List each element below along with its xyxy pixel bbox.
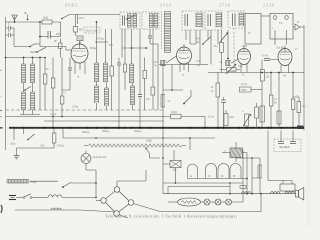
wire h183 — [163, 182, 243, 184]
resistor R15 — [291, 73, 295, 128]
svg-text:½W: ½W — [40, 144, 45, 148]
tube V1 leads — [75, 62, 85, 79]
IF can T1 — [120, 12, 140, 29]
resistor R7 — [110, 29, 113, 110]
resistor R21 — [17, 128, 56, 148]
label 0.1uF — [50, 113, 57, 116]
switch S10 — [23, 194, 32, 199]
label 580uu — [90, 47, 98, 50]
switch S11 — [62, 182, 97, 188]
wire vertical x140 — [138, 29, 142, 128]
resistor R12 grid — [220, 59, 239, 66]
capacitor C6 — [117, 58, 121, 128]
svg-text:20kΩ: 20kΩ — [171, 111, 177, 114]
resistor R2 — [59, 39, 63, 58]
barretter box B — [243, 14, 262, 48]
svg-text:30μ: 30μ — [214, 46, 219, 48]
coil L10 — [131, 83, 135, 110]
svg-text:18a 12+1μ²: 18a 12+1μ² — [85, 30, 98, 33]
wire right rail x304 — [303, 25, 305, 131]
rail y116 — [6, 116, 171, 118]
wire battery — [16, 197, 23, 199]
label box 10a 12+13u — [84, 27, 100, 33]
resistor R3 grid leak — [73, 15, 84, 37]
jack J1 — [188, 164, 248, 180]
relay box 22a — [163, 161, 181, 184]
label half watt — [40, 144, 64, 148]
switch S7 — [196, 37, 212, 45]
resistor R10 — [151, 29, 155, 110]
svg-text:20kΩ: 20kΩ — [146, 139, 152, 143]
capacitor C4 — [54, 34, 61, 43]
wire converter left — [95, 197, 101, 201]
svg-text:2420: 2420 — [160, 3, 172, 8]
resistor R1 1k — [42, 16, 52, 25]
paper crease right — [306, 0, 311, 226]
wire dropper — [29, 180, 58, 182]
wire bottom return — [15, 194, 261, 218]
resistor R19 — [224, 110, 234, 126]
speaker LS — [296, 188, 304, 201]
wire vertical x40 — [39, 58, 41, 111]
choke L15 — [271, 192, 280, 194]
wire h89 right — [251, 89, 262, 91]
svg-text:2338: 2338 — [263, 3, 275, 8]
wire x14 drop — [10, 128, 16, 146]
tube V2 — [177, 44, 192, 64]
wire relay top link — [261, 15, 270, 17]
wire meter leads — [86, 151, 96, 198]
ground G1 — [14, 148, 20, 159]
wire vertical x163 low — [162, 128, 164, 194]
svg-text:nʸ: nʸ — [77, 76, 79, 79]
svg-text:2586: 2586 — [241, 89, 247, 92]
wire x228 — [227, 30, 229, 59]
can label box — [240, 83, 252, 92]
page number 2728 — [219, 3, 231, 8]
tube V1 — [71, 41, 88, 63]
svg-text:8CB1: 8CB1 — [65, 3, 78, 8]
svg-text:nʸ: nʸ — [182, 74, 184, 77]
capacitor C7 — [262, 55, 278, 70]
svg-text:θʸ: θʸ — [209, 175, 211, 178]
wire h64 — [159, 64, 208, 66]
diode N — [293, 20, 304, 30]
resistor R18 20k — [171, 111, 206, 128]
svg-text:R³: R³ — [233, 175, 236, 178]
tube V3 leads — [241, 64, 247, 77]
wire vertical x279 — [278, 73, 280, 128]
svg-text:100a: 100a — [10, 143, 16, 146]
resistor R9 — [143, 58, 146, 111]
wire can leads — [186, 30, 218, 44]
wire grid link V1 — [40, 47, 71, 51]
label 3870 — [95, 37, 148, 49]
switch S8 — [183, 90, 191, 104]
pot P3 — [242, 110, 251, 126]
resistor R13 — [260, 70, 270, 128]
scan mark left edge — [0, 70, 3, 213]
bus junction dots — [13, 127, 300, 129]
wire h138 — [63, 137, 215, 139]
wire mid column x62 — [61, 58, 63, 117]
label 600uu b — [102, 129, 110, 133]
switch S9 — [24, 128, 35, 141]
capacitor C2 — [6, 29, 15, 37]
choke L12 — [32, 195, 96, 198]
choke L13 — [51, 208, 61, 210]
switch S2 — [24, 83, 33, 92]
switch S6 — [126, 15, 136, 20]
switch S5 wave change — [61, 15, 120, 20]
svg-text:22a: 22a — [173, 169, 178, 172]
coil L9 — [130, 29, 134, 83]
svg-text:Stella-Drehko: Stella-Drehko — [93, 156, 108, 159]
resistor R11 — [154, 56, 177, 67]
svg-text:600μμ: 600μμ — [134, 129, 142, 133]
coil L5 — [95, 63, 99, 82]
small box bottom — [240, 186, 246, 189]
svg-text:m°: m° — [295, 48, 298, 51]
main bus — [9, 127, 304, 129]
lamp E3 — [221, 194, 243, 205]
svg-text:Σ N: Σ N — [243, 44, 248, 48]
svg-text:45+45μF: 45+45μF — [279, 145, 290, 149]
svg-text:E: E — [25, 11, 27, 15]
converter U1 — [101, 187, 134, 217]
capacitor C11 — [148, 29, 158, 58]
IF can T4 — [205, 11, 222, 30]
svg-text:17kΩa: 17kΩa — [57, 145, 65, 148]
svg-text:N: N — [297, 20, 299, 24]
antenna A — [12, 15, 18, 22]
svg-text:7.1: 7.1 — [279, 21, 283, 25]
wire drops to speaker line — [251, 157, 258, 194]
transformer TR1 — [222, 142, 247, 194]
svg-text:0.1μF: 0.1μF — [50, 113, 57, 116]
page number 2338 — [263, 3, 275, 8]
wire top rail — [39, 21, 60, 46]
capacitor block 45+45uF — [274, 131, 301, 152]
wire h186 — [168, 183, 230, 194]
wire mid-right horizontal — [238, 72, 304, 74]
svg-text:50 4a: 50 4a — [262, 55, 269, 58]
wire vertical x163 — [162, 65, 164, 95]
wire antenna junction — [6, 21, 43, 46]
lamp E2 — [210, 199, 221, 205]
wire vertical x172 — [163, 65, 183, 91]
wire x63 drop — [62, 128, 64, 138]
speaker feed wire — [163, 193, 296, 195]
svg-text:2mF: 2mF — [196, 60, 201, 63]
resistor R8 — [123, 29, 126, 90]
resistor R14 — [269, 73, 277, 128]
resistor R26 — [214, 30, 224, 73]
wire vertical x243 — [242, 150, 244, 194]
battery B1 — [9, 196, 16, 200]
coil L4 — [31, 92, 35, 110]
wire band switch — [14, 44, 40, 48]
capacitor C5 — [62, 58, 72, 91]
coil L3 — [22, 92, 26, 110]
coil L8 — [105, 82, 109, 106]
capacitor C1 — [6, 22, 15, 31]
wire vertical x158 — [157, 58, 159, 111]
capacitor C9 — [221, 97, 226, 128]
svg-text:52 4a: 52 4a — [241, 83, 248, 86]
resistor R4 — [43, 57, 47, 110]
svg-text:10μ: 10μ — [302, 105, 307, 108]
svg-text:600μμ: 600μμ — [102, 129, 110, 133]
terminal E — [25, 11, 29, 20]
IF can T2 — [142, 12, 159, 29]
svg-text:MΩ: MΩ — [79, 29, 83, 32]
svg-text:51a,48a: 51a,48a — [276, 47, 285, 50]
svg-text:3870μμ: 3870μμ — [96, 37, 105, 40]
lamp E1 — [201, 199, 211, 205]
shield partition dashed — [233, 28, 235, 72]
svg-text:m²: m² — [197, 65, 200, 68]
wire converter top — [117, 170, 146, 187]
svg-text:MΩ: MΩ — [109, 44, 113, 47]
rail y121 — [44, 120, 164, 122]
wire x268 feed — [268, 131, 283, 181]
pot arrow P1 — [220, 33, 228, 43]
tube V4 leads — [281, 65, 289, 78]
caption text — [105, 214, 238, 220]
label above V4 — [274, 42, 298, 52]
resistor R5 — [51, 78, 55, 88]
svg-text:Gr: Gr — [168, 100, 171, 103]
wire x174 — [173, 150, 175, 161]
svg-text:1kΩ: 1kΩ — [43, 16, 48, 20]
resistor R24 — [260, 106, 265, 122]
wire mid column x53 — [52, 58, 54, 128]
svg-text:215ᵘʸ: 215ᵘʸ — [79, 17, 85, 20]
IF can T3 — [182, 11, 203, 30]
capacitor C10 electrolytic — [297, 126, 304, 129]
switch S1 — [30, 47, 46, 53]
svg-text:600μμ: 600μμ — [82, 130, 90, 134]
page number 2420 — [160, 3, 172, 8]
tube V2 leads — [180, 63, 189, 77]
label 0.04 — [72, 106, 79, 109]
label 600uu c — [134, 129, 142, 133]
svg-text:n²ʸ: n²ʸ — [283, 75, 286, 78]
jack J0 — [188, 164, 198, 179]
wire V2 can leads — [190, 30, 196, 44]
oscillator coil L11 — [162, 11, 171, 53]
svg-text:R²: R² — [221, 175, 224, 178]
pot P2 — [220, 64, 244, 74]
svg-text:2728: 2728 — [219, 3, 231, 8]
relay box K — [270, 14, 293, 45]
grid cap MO — [77, 36, 83, 45]
resistor R17 — [208, 73, 238, 128]
svg-text:nʸ: nʸ — [190, 175, 192, 178]
resistor R23 mains dropper — [7, 180, 37, 185]
wire x200 — [199, 30, 201, 65]
svg-text:25μ: 25μ — [146, 99, 151, 101]
label 20.4a — [208, 116, 215, 119]
svg-text:20.4a: 20.4a — [208, 116, 215, 119]
label 2575 — [146, 99, 151, 101]
IF can T5 — [228, 11, 245, 28]
svg-text:0.04μ: 0.04μ — [72, 106, 79, 109]
resistor R25 — [277, 111, 281, 124]
label 0.1 mid — [46, 69, 67, 95]
resistor R16 — [161, 95, 170, 128]
label 2mF — [196, 60, 201, 68]
wiper W1 — [146, 148, 161, 159]
label 600uu a — [82, 130, 90, 134]
svg-text:5kΩ: 5kΩ — [230, 116, 235, 119]
svg-text:C: C — [224, 150, 226, 154]
page number 8CB1 — [65, 3, 78, 8]
resistor R6 — [60, 96, 64, 104]
wire coil bottoms — [20, 110, 40, 115]
wire can1 lead x122 — [121, 29, 123, 58]
coil L1 — [22, 58, 26, 84]
svg-text:C: C — [8, 29, 10, 33]
choke L16 — [285, 192, 294, 194]
potentiometer P4 20k — [84, 139, 186, 148]
choke L14 — [242, 192, 252, 194]
resistor R22 — [236, 158, 262, 194]
chassis dashed rail — [6, 109, 164, 111]
tube V3 — [238, 46, 251, 65]
coil L2 — [31, 58, 35, 84]
wire vertical x96.5 — [96, 21, 98, 63]
svg-text:47kμ: 47kμ — [238, 65, 244, 68]
wire x190 low — [189, 137, 191, 150]
tube V4 — [278, 46, 292, 66]
coil L6 — [104, 29, 108, 82]
svg-text:MO: MO — [78, 37, 82, 41]
ballast tube BA — [168, 198, 201, 206]
wire x211 — [210, 30, 212, 65]
output transformer TR2 — [280, 181, 295, 192]
wire coil L7 bottom — [97, 103, 107, 110]
coil L7 — [95, 82, 99, 103]
resistor R20 — [255, 103, 259, 128]
wire left rail — [5, 17, 7, 150]
svg-text:KΩa: KΩa — [31, 180, 37, 184]
meter M1 — [81, 154, 107, 164]
capacitor C8 electrolytic — [293, 93, 306, 128]
capacitor C3 — [39, 31, 56, 39]
wire upper left bus — [5, 57, 46, 59]
